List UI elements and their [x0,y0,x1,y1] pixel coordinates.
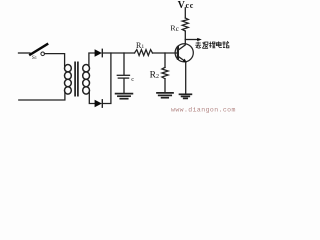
wire capacitor to ground [123,79,125,93]
svg-text:Rc: Rc [170,24,179,33]
ground (R2) [157,93,173,98]
wire emitter to ground [185,62,187,94]
transistor Q1 base bar [177,47,179,59]
wire R2 branch [164,53,166,67]
transformer T secondary winding [83,65,90,95]
capacitor C [117,75,129,78]
label 去逻辑电路 (to logic circuit), drawn as strokes [195,41,229,48]
switch S1 lever [30,44,47,54]
ground (capacitor) [116,94,133,99]
wire secondary top to D1 [89,53,95,66]
wire secondary bottom to D2 [89,93,94,104]
svg-text:c: c [131,76,134,83]
svg-text:Vcc: Vcc [178,0,194,11]
wire capacitor branch [123,53,125,75]
char 去 [195,42,201,49]
svg-text:R2: R2 [150,71,159,81]
wire input bottom [19,93,65,101]
svg-text:S1: S1 [32,55,37,61]
char 逻 [202,42,208,49]
transistor Q1 emitter [178,56,186,62]
emitter arrowhead [183,59,187,63]
resistor R2 [162,67,168,78]
transistor Q1 collector [178,31,185,50]
ground (emitter) [180,94,192,98]
wire R2 to ground [164,79,166,93]
wire input top [19,52,31,54]
transistor Q1 circle [175,44,193,62]
transformer T primary winding [65,65,72,95]
output arrow to logic circuit [185,39,199,41]
diode D1 [95,49,103,56]
resistor Rc [182,18,188,31]
char 路 [223,42,229,48]
diode D2 [95,100,103,107]
wire rail R1 to base [153,52,178,54]
svg-text:www.diangon.com: www.diangon.com [171,107,236,114]
wire D2 cathode up to rail [102,53,111,104]
svg-text:R1: R1 [136,41,144,50]
wire rail D1 to R1 [102,52,134,54]
switch S1 contact [41,52,45,56]
wire Rc to Vcc [184,8,186,18]
wire switch to transformer [44,54,64,66]
resistor R1 [135,50,153,56]
char 电 [216,41,222,47]
transformer core [75,62,78,95]
char 辑 [209,42,215,48]
